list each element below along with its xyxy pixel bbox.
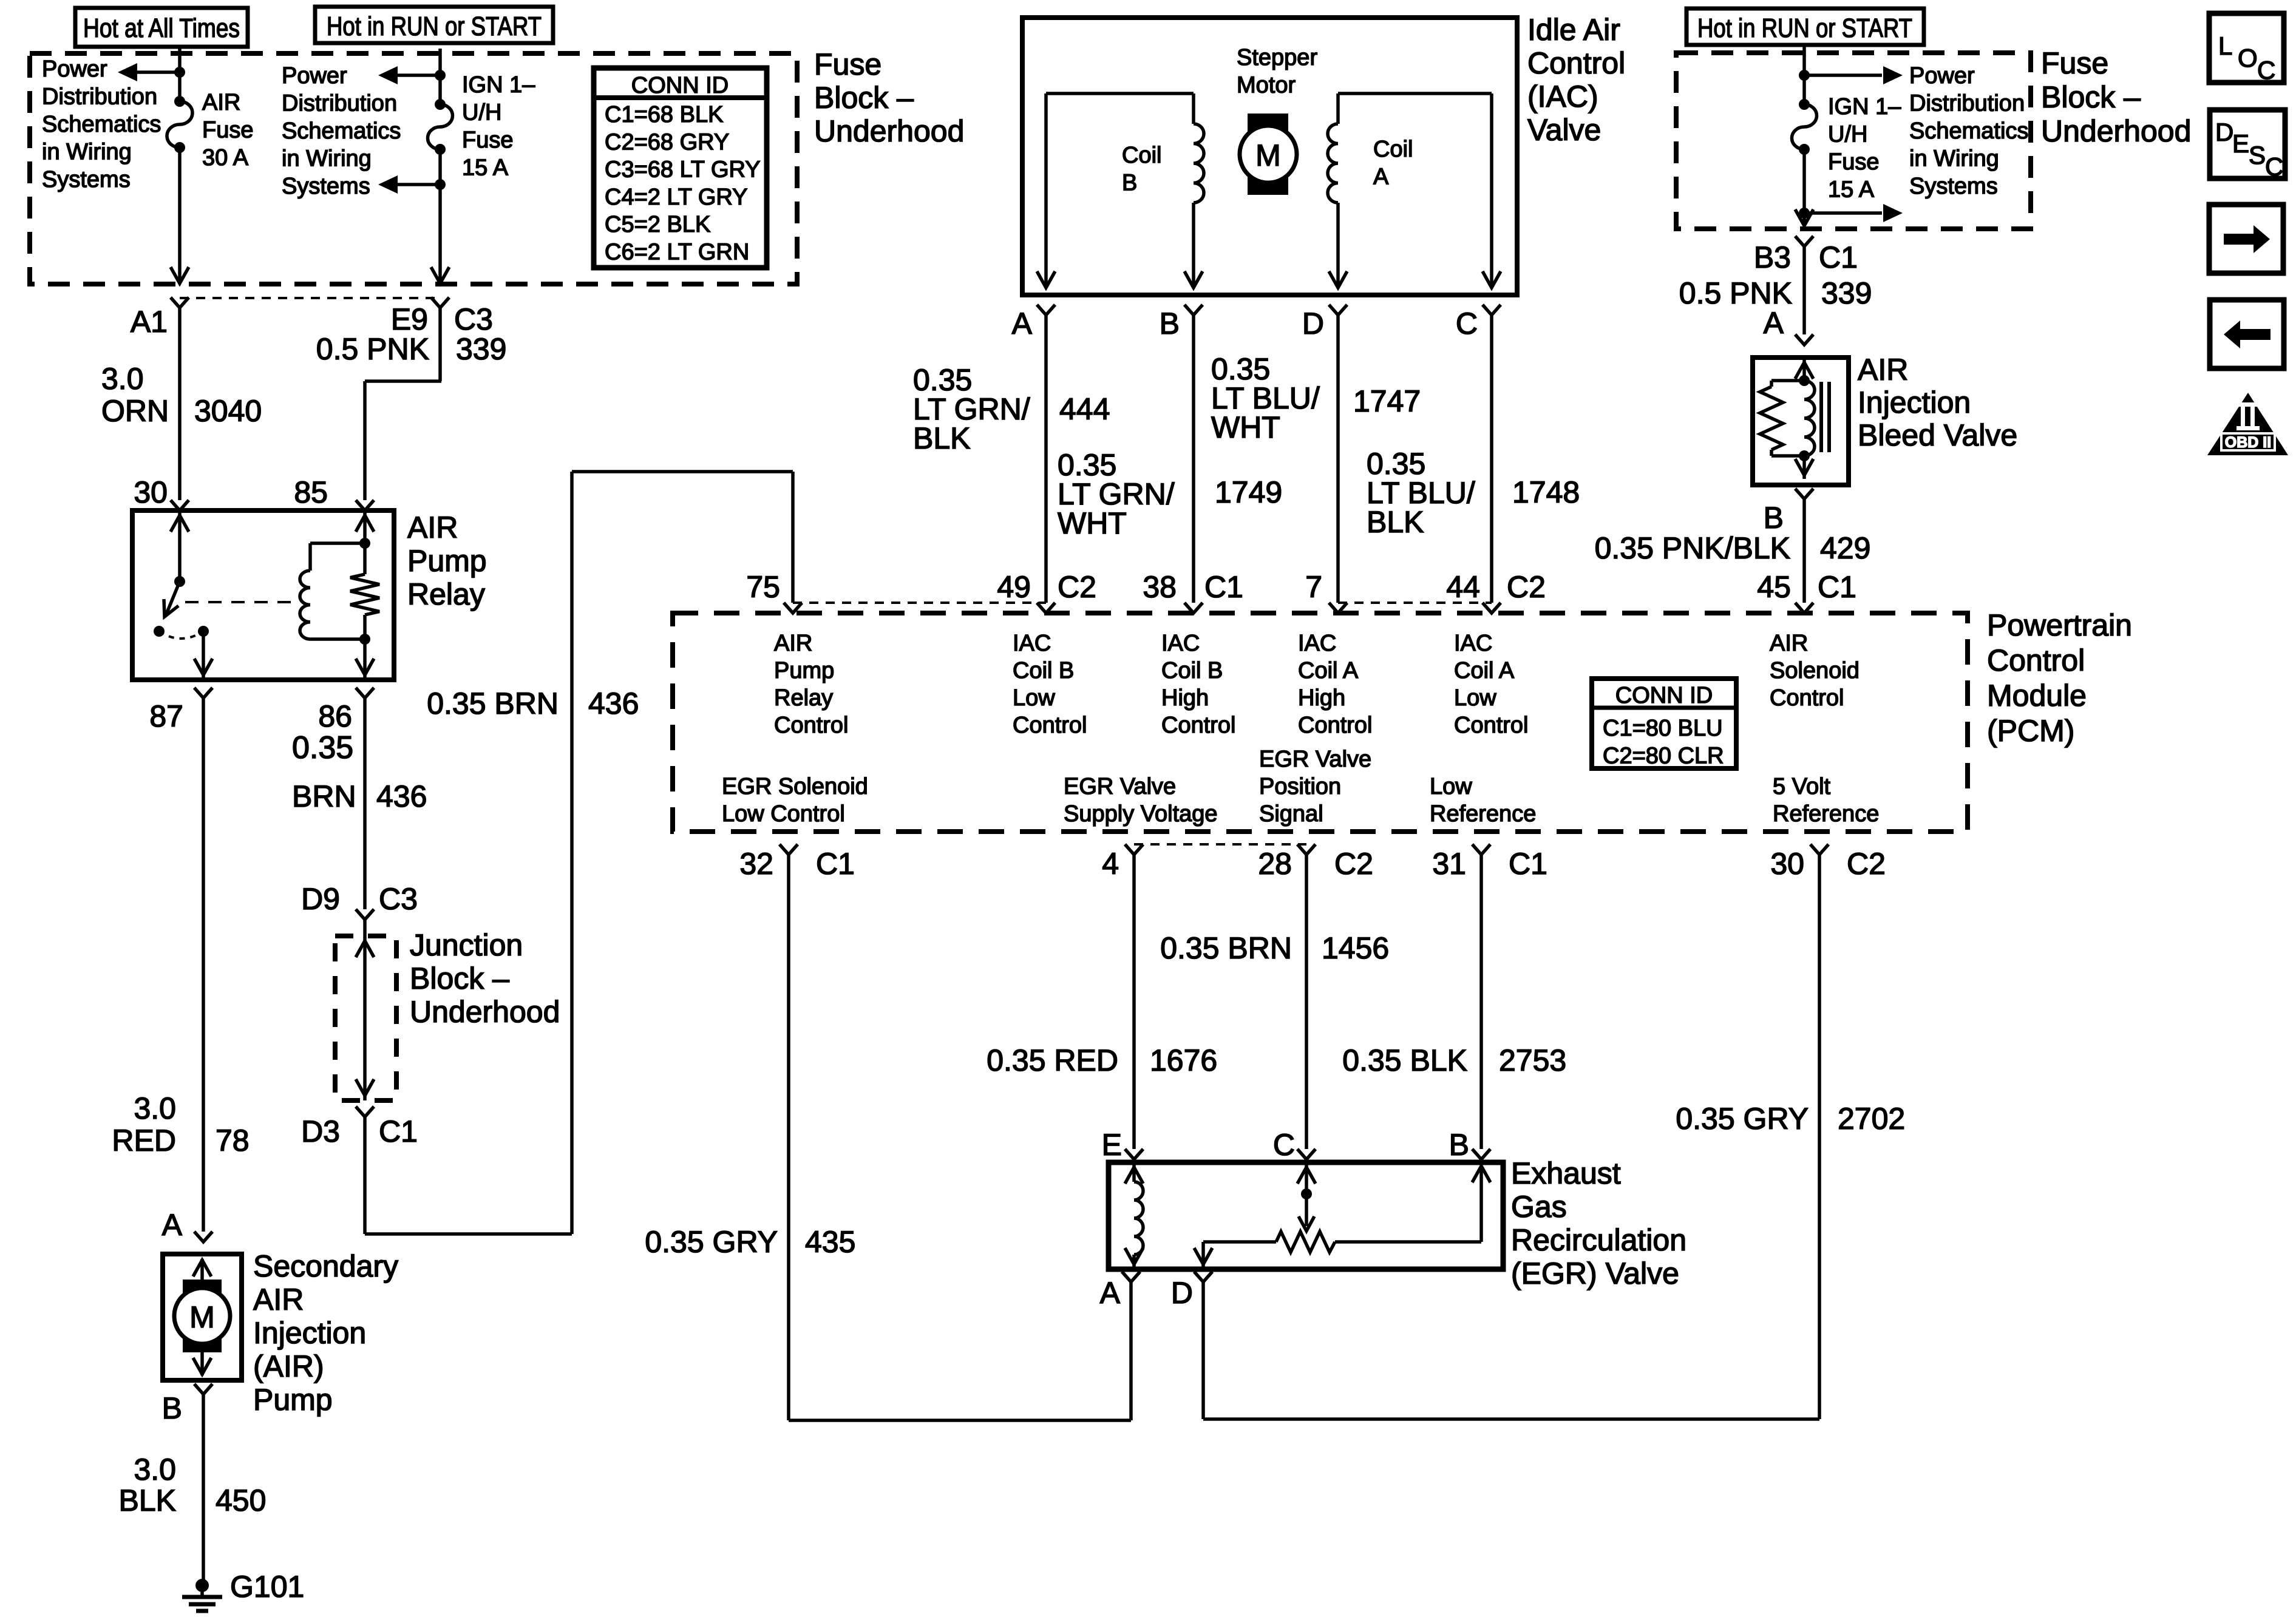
PCM pin label: IAC Coil B Low Control xyxy=(1013,631,1087,738)
svg-text:44: 44 xyxy=(1446,570,1480,604)
label B (bleed valve) xyxy=(1764,501,1784,535)
svg-text:Secondary: Secondary xyxy=(253,1249,398,1283)
label 339 (right) xyxy=(1821,276,1872,310)
fuse block - underhood (dashed box, left) xyxy=(30,53,797,284)
svg-text:Bleed Valve: Bleed Valve xyxy=(1858,418,2017,452)
label 339 (left) xyxy=(456,332,506,366)
IAC coil B bracket xyxy=(1046,92,1194,95)
svg-text:C3: C3 xyxy=(454,302,493,336)
svg-text:0.5 PNK: 0.5 PNK xyxy=(316,332,429,366)
svg-text:RED: RED xyxy=(112,1124,176,1158)
svg-text:Coil B: Coil B xyxy=(1013,658,1074,683)
label D3 xyxy=(301,1114,340,1148)
svg-text:436: 436 xyxy=(376,779,427,813)
IAC wire C internal with down arrow xyxy=(1483,93,1501,288)
svg-text:Schematics: Schematics xyxy=(42,112,161,137)
svg-text:B: B xyxy=(1122,171,1137,196)
wire 1676: 0.35 RED (PCM 4 to EGR E) xyxy=(1132,855,1136,1149)
svg-text:32: 32 xyxy=(739,847,773,881)
EGR pin D drop with arrow xyxy=(1194,1242,1212,1269)
svg-text:85: 85 xyxy=(294,475,328,509)
connector at relay pin 30 xyxy=(171,500,189,510)
svg-text:B: B xyxy=(162,1391,182,1425)
svg-text:38: 38 xyxy=(1143,570,1177,604)
label C2 (pin28) xyxy=(1334,847,1373,881)
wire: battery feed through AIR fuse (vertical, x=296) xyxy=(178,49,182,280)
svg-text:C2: C2 xyxy=(1507,570,1546,604)
label A1 xyxy=(131,305,168,339)
IAC wire A internal with down arrow xyxy=(1037,93,1055,288)
svg-text:C5=2 BLK: C5=2 BLK xyxy=(605,212,710,237)
PCM: Powertrain Control Module (dashed box) xyxy=(673,613,1968,832)
label C2 (pin30) xyxy=(1847,847,1886,881)
svg-text:C1=80 BLU: C1=80 BLU xyxy=(1603,716,1723,741)
label: Fuse Block - Underhood (left) xyxy=(814,47,964,148)
svg-text:E9: E9 xyxy=(391,302,428,336)
svg-text:(IAC): (IAC) xyxy=(1527,80,1598,114)
svg-text:Control: Control xyxy=(774,713,849,738)
svg-text:Valve: Valve xyxy=(1527,113,1601,147)
svg-text:Systems: Systems xyxy=(42,167,131,192)
connector below IAC pin C xyxy=(1483,305,1501,315)
label 1747 xyxy=(1353,384,1421,418)
wire 429: 0.35 PNK/BLK (bleed valve B to PCM 45) xyxy=(1802,499,1806,603)
icon: forward arrow box xyxy=(2209,205,2283,273)
label G101 xyxy=(230,1570,304,1604)
label 429 xyxy=(1820,531,1870,565)
svg-text:Fuse: Fuse xyxy=(462,127,513,153)
label 49 xyxy=(997,570,1031,604)
relay coil drive wire (pin85/86) with arrows xyxy=(356,510,374,680)
relay switch blade xyxy=(164,581,180,617)
junction dot on IGN fuse feed (top) xyxy=(435,70,446,81)
svg-text:C1: C1 xyxy=(1204,570,1243,604)
EGR: Exhaust Gas Recirculation Valve (box) xyxy=(1109,1162,1503,1269)
svg-text:5 Volt: 5 Volt xyxy=(1773,774,1831,799)
label C3 (junction) xyxy=(379,882,418,916)
label 1676 xyxy=(1150,1043,1217,1077)
svg-text:3.0: 3.0 xyxy=(101,362,144,396)
svg-text:Motor: Motor xyxy=(1237,73,1296,98)
svg-text:A: A xyxy=(1100,1276,1121,1310)
svg-text:75: 75 xyxy=(746,570,780,604)
relay coil xyxy=(300,543,365,639)
svg-text:Low Control: Low Control xyxy=(722,801,845,827)
svg-text:Module: Module xyxy=(1987,679,2087,713)
label: Power Distribution Schematics in Wiring Systems (mid) xyxy=(282,63,401,199)
svg-text:Pump: Pump xyxy=(407,544,487,578)
connector at PCM pin 45 xyxy=(1795,603,1813,613)
svg-text:C1=68 BLK: C1=68 BLK xyxy=(605,102,723,127)
wire 436: D3 down and right to riser xyxy=(365,1117,572,1234)
pump internal arrows xyxy=(193,1259,211,1375)
relay pin30 wire with up arrow xyxy=(171,510,189,587)
svg-text:Junction: Junction xyxy=(410,928,523,962)
svg-text:L: L xyxy=(2218,32,2232,60)
label D (EGR) xyxy=(1171,1276,1193,1310)
svg-text:1747: 1747 xyxy=(1353,384,1421,418)
svg-text:Signal: Signal xyxy=(1259,801,1323,827)
svg-text:Control: Control xyxy=(1987,643,2085,677)
fuse block - underhood (dashed box, right) xyxy=(1676,53,2031,229)
label C (IAC) xyxy=(1456,307,1478,341)
svg-text:Injection: Injection xyxy=(1858,385,1971,419)
junction dot (right fuse, bottom) xyxy=(1799,208,1810,219)
svg-text:EGR Solenoid: EGR Solenoid xyxy=(722,774,868,799)
svg-text:Coil A: Coil A xyxy=(1298,658,1359,683)
junction block internal wire with arrows xyxy=(356,920,374,1100)
svg-text:D3: D3 xyxy=(301,1114,340,1148)
connector at EGR pin B xyxy=(1472,1149,1490,1159)
label: Stepper Motor xyxy=(1237,45,1317,98)
svg-text:WHT: WHT xyxy=(1211,410,1280,444)
svg-text:Reference: Reference xyxy=(1773,801,1879,827)
fuse: AIR Fuse 30 A xyxy=(167,96,192,153)
svg-text:D: D xyxy=(2215,118,2233,146)
label: Exhaust Gas Recirculation (EGR) Valve xyxy=(1511,1156,1686,1290)
label 2753 xyxy=(1499,1043,1566,1077)
label: Idle Air Control (IAC) Valve xyxy=(1527,13,1625,147)
connector at EGR pin D xyxy=(1194,1272,1212,1282)
connector at PCM pin 28 xyxy=(1297,844,1316,855)
connector at bleed valve pin A xyxy=(1795,334,1813,345)
connector E9 / C3 xyxy=(431,297,449,308)
svg-text:Recirculation: Recirculation xyxy=(1511,1223,1686,1257)
label 85 xyxy=(294,475,328,509)
svg-text:Fuse: Fuse xyxy=(202,118,253,143)
label 38 xyxy=(1143,570,1177,604)
svg-text:E: E xyxy=(2232,129,2249,158)
IAC coil A xyxy=(1328,93,1347,288)
relay switch travel arc (dashed) xyxy=(159,631,203,639)
svg-text:Pump: Pump xyxy=(774,658,834,683)
svg-text:Injection: Injection xyxy=(253,1316,366,1350)
relay pin87 wire with down arrow xyxy=(194,631,212,680)
label 87 xyxy=(149,699,183,733)
label: AIR Injection Bleed Valve xyxy=(1858,353,2017,452)
PCM pin label: IAC Coil B High Control xyxy=(1161,631,1236,738)
connector at PCM pin 75 xyxy=(784,603,802,613)
svg-text:Hot in RUN or START: Hot in RUN or START xyxy=(1697,13,1912,43)
svg-text:IAC: IAC xyxy=(1298,631,1336,656)
svg-text:CONN ID: CONN ID xyxy=(631,73,729,98)
label: AIR Pump Relay xyxy=(407,510,487,611)
svg-text:C: C xyxy=(1456,307,1478,341)
label 436 (pin86) xyxy=(376,779,427,813)
svg-text:Pump: Pump xyxy=(253,1383,333,1417)
svg-text:AIR: AIR xyxy=(407,510,458,544)
svg-text:Distribution: Distribution xyxy=(282,91,397,117)
label 0.35 BLK xyxy=(1342,1043,1467,1077)
svg-text:1748: 1748 xyxy=(1512,475,1580,509)
arrowhead into connector A1 xyxy=(171,267,189,283)
svg-text:Exhaust: Exhaust xyxy=(1511,1156,1621,1190)
label: IGN 1- U/H Fuse 15 A (right) xyxy=(1828,94,1901,203)
svg-text:in Wiring: in Wiring xyxy=(42,140,132,165)
relay internal resistor xyxy=(350,574,379,615)
arrowhead into connector E9 xyxy=(431,267,449,283)
svg-text:15 A: 15 A xyxy=(462,155,509,181)
label C1 (pin32) xyxy=(816,847,855,881)
svg-text:M: M xyxy=(1255,138,1281,172)
svg-text:A: A xyxy=(162,1208,183,1242)
label C1 (right fuse) xyxy=(1819,240,1858,274)
label A (bleed valve) xyxy=(1764,306,1784,340)
svg-text:Underhood: Underhood xyxy=(2041,114,2191,148)
connector at PCM pin 30 xyxy=(1810,844,1829,855)
svg-text:B: B xyxy=(1764,501,1784,535)
svg-text:WHT: WHT xyxy=(1058,506,1127,540)
svg-text:0.35 RED: 0.35 RED xyxy=(987,1043,1118,1077)
EGR solenoid coil with arrows xyxy=(1125,1162,1143,1269)
svg-text:Underhood: Underhood xyxy=(410,995,560,1029)
svg-text:C2=80 CLR: C2=80 CLR xyxy=(1603,743,1724,768)
label: Coil A xyxy=(1373,137,1413,190)
svg-text:15 A: 15 A xyxy=(1828,177,1875,203)
CONN ID table (PCM) xyxy=(1592,679,1736,768)
power feed banner: Hot in RUN or START (left) xyxy=(315,7,553,43)
svg-text:Block –: Block – xyxy=(814,81,914,115)
connector below relay pin 86 xyxy=(356,688,374,698)
svg-text:(AIR): (AIR) xyxy=(253,1349,324,1383)
svg-text:7: 7 xyxy=(1305,570,1322,604)
connector line (thin dashed) 7-44 xyxy=(1338,602,1492,604)
svg-text:1749: 1749 xyxy=(1215,475,1282,509)
svg-text:C: C xyxy=(2257,56,2275,84)
label C2 (pin44) xyxy=(1507,570,1546,604)
svg-text:Stepper: Stepper xyxy=(1237,45,1317,70)
svg-text:B3: B3 xyxy=(1754,240,1791,274)
connector at PCM pin 49 xyxy=(1037,603,1055,613)
connector at bleed valve pin B xyxy=(1795,489,1813,499)
svg-text:Low: Low xyxy=(1013,685,1055,711)
svg-text:0.35 BRN: 0.35 BRN xyxy=(427,686,559,720)
label A (IAC) xyxy=(1012,307,1033,341)
ground G101 xyxy=(182,1579,222,1611)
svg-text:Coil: Coil xyxy=(1122,143,1161,168)
label: Power Distribution Schematics in Wiring Systems (right) xyxy=(1909,63,2028,199)
svg-text:Reference: Reference xyxy=(1430,801,1536,827)
connector D3 / C1 xyxy=(356,1107,374,1117)
wire 339: 0.5 PNK (B3 to bleed valve A) xyxy=(1802,246,1806,334)
svg-text:Schematics: Schematics xyxy=(1909,118,2028,144)
svg-text:B: B xyxy=(1160,307,1180,341)
svg-text:Hot at All Times: Hot at All Times xyxy=(83,13,240,43)
connector at EGR pin A xyxy=(1122,1272,1140,1282)
svg-text:C2: C2 xyxy=(1058,570,1096,604)
svg-text:31: 31 xyxy=(1432,847,1466,881)
label A (pump) xyxy=(162,1208,183,1242)
fuse: IGN 1- U/H Fuse 15 A xyxy=(428,99,453,155)
connector B3 / C1 xyxy=(1795,236,1813,246)
svg-text:4: 4 xyxy=(1102,847,1119,881)
svg-text:D: D xyxy=(1302,307,1324,341)
label 3.0 BLK xyxy=(118,1453,176,1517)
svg-text:Hot in RUN or START: Hot in RUN or START xyxy=(327,12,542,41)
svg-text:Coil B: Coil B xyxy=(1161,658,1223,683)
PCM pin label: EGR Valve Position Signal xyxy=(1259,747,1371,827)
svg-text:High: High xyxy=(1298,685,1345,711)
connector line (thin dashed) 75-49 xyxy=(793,602,1046,604)
svg-text:C1: C1 xyxy=(816,847,855,881)
label 30 (pin30) xyxy=(1770,847,1804,881)
EGR potentiometer xyxy=(1203,1232,1481,1252)
wire 444: 0.35 LT GRN/BLK (IAC A to PCM 49) xyxy=(1044,315,1048,603)
svg-text:429: 429 xyxy=(1820,531,1870,565)
label 31 xyxy=(1432,847,1466,881)
label: Powertrain Control Module (PCM) xyxy=(1987,608,2132,748)
bleed valve wire with arrows xyxy=(1795,358,1813,479)
label 450 xyxy=(216,1483,266,1517)
PCM pin label: 5 Volt Reference xyxy=(1773,774,1879,827)
svg-text:Systems: Systems xyxy=(282,174,370,199)
wire 1749: 0.35 LT GRN/WHT (IAC B to PCM 38) xyxy=(1192,315,1195,603)
svg-text:OBD II: OBD II xyxy=(2225,434,2271,451)
svg-text:450: 450 xyxy=(216,1483,266,1517)
svg-text:IAC: IAC xyxy=(1013,631,1051,656)
label E9 xyxy=(391,302,428,336)
svg-text:in Wiring: in Wiring xyxy=(282,146,372,172)
PCM pin label: IAC Coil A Low Control xyxy=(1454,631,1529,738)
svg-text:IGN 1–: IGN 1– xyxy=(462,72,535,98)
wire 436: relay 86 down to junction block D9 xyxy=(363,698,367,909)
svg-text:C1: C1 xyxy=(1509,847,1547,881)
svg-text:C1: C1 xyxy=(379,1114,418,1148)
svg-text:49: 49 xyxy=(997,570,1031,604)
svg-text:(EGR) Valve: (EGR) Valve xyxy=(1511,1256,1679,1290)
label 32 xyxy=(739,847,773,881)
svg-text:S: S xyxy=(2249,141,2266,169)
label 0.35 BRN (riser) xyxy=(427,686,559,720)
svg-text:3.0: 3.0 xyxy=(134,1453,176,1486)
svg-text:BRN: BRN xyxy=(292,779,356,813)
arrow to Power Distribution (right, top) xyxy=(1804,66,1903,84)
label 0.35 BRN (1456) xyxy=(1160,931,1292,965)
svg-text:Fuse: Fuse xyxy=(1828,149,1879,175)
svg-text:IAC: IAC xyxy=(1454,631,1492,656)
svg-text:CONN ID: CONN ID xyxy=(1615,683,1713,708)
wire 436: top run to PCM pin 75 xyxy=(572,472,793,603)
connector at EGR pin C xyxy=(1297,1149,1316,1159)
label 0.35 LT BLU/WHT xyxy=(1211,352,1320,444)
label C (EGR) xyxy=(1273,1128,1295,1162)
svg-text:in Wiring: in Wiring xyxy=(1909,146,1999,172)
label: AIR Fuse 30 A xyxy=(202,90,253,171)
label: Junction Block - Underhood xyxy=(410,928,560,1029)
label 28 xyxy=(1258,847,1292,881)
svg-text:0.5 PNK: 0.5 PNK xyxy=(1679,276,1792,310)
svg-text:C2: C2 xyxy=(1334,847,1373,881)
svg-text:Block –: Block – xyxy=(410,961,509,995)
PCM pin label: EGR Valve Supply Voltage xyxy=(1064,774,1218,827)
label: IGN 1- U/H Fuse 15 A xyxy=(462,72,535,181)
svg-text:0.35 GRY: 0.35 GRY xyxy=(645,1225,778,1259)
icon: back arrow box xyxy=(2210,300,2284,368)
EGR position sensor wiper xyxy=(1297,1162,1316,1231)
svg-text:Relay: Relay xyxy=(774,685,833,711)
svg-text:Gas: Gas xyxy=(1511,1190,1567,1224)
wire 1748: 0.35 LT BLU/BLK (IAC C to PCM 44) xyxy=(1490,315,1493,603)
svg-text:M: M xyxy=(189,1300,215,1334)
svg-text:BLK: BLK xyxy=(118,1483,176,1517)
svg-text:78: 78 xyxy=(216,1124,250,1158)
label 4 xyxy=(1102,847,1119,881)
svg-text:444: 444 xyxy=(1059,392,1110,426)
connector line (thin dashed) A1-E9 xyxy=(180,297,440,299)
label 0.35 GRY (435) xyxy=(645,1225,778,1259)
label 0.35 GRY (2702) xyxy=(1676,1102,1809,1136)
motor M: Secondary AIR Injection Pump (box) xyxy=(163,1254,242,1380)
label 436 (riser) xyxy=(588,686,639,720)
svg-text:Schematics: Schematics xyxy=(282,118,401,144)
svg-text:Fuse: Fuse xyxy=(2041,46,2108,80)
arrow to Power Distribution (right, bottom) xyxy=(1804,204,1903,222)
label E (EGR) xyxy=(1102,1128,1122,1162)
connector at pump pin A xyxy=(194,1232,212,1242)
icon: OBD II symbol xyxy=(2207,393,2288,455)
label 1749 xyxy=(1215,475,1282,509)
svg-text:Low: Low xyxy=(1430,774,1472,799)
svg-text:Idle Air: Idle Air xyxy=(1527,13,1620,47)
IAC: Idle Air Control Valve (box) xyxy=(1022,18,1517,295)
svg-text:87: 87 xyxy=(149,699,183,733)
svg-text:3040: 3040 xyxy=(194,394,262,428)
label C1 (junction) xyxy=(379,1114,418,1148)
svg-text:EGR Valve: EGR Valve xyxy=(1259,747,1371,772)
relay dashed actuation line xyxy=(185,601,299,603)
connector at pump pin B xyxy=(194,1384,212,1394)
svg-text:339: 339 xyxy=(456,332,506,366)
wire 3040: 3.0 ORN (A1 to relay 30) xyxy=(178,308,182,500)
svg-text:Position: Position xyxy=(1259,774,1341,799)
svg-text:30: 30 xyxy=(1770,847,1804,881)
label 0.35 RED xyxy=(987,1043,1118,1077)
svg-text:435: 435 xyxy=(805,1225,855,1259)
PCM pin label: Low Reference xyxy=(1430,774,1536,827)
label 444 xyxy=(1059,392,1110,426)
svg-text:Coil A: Coil A xyxy=(1454,658,1515,683)
svg-text:B: B xyxy=(1449,1128,1469,1162)
svg-text:Underhood: Underhood xyxy=(814,114,964,148)
connector at PCM pin 44 xyxy=(1483,603,1501,613)
label 1748 xyxy=(1512,475,1580,509)
svg-text:Distribution: Distribution xyxy=(42,84,157,110)
svg-text:AIR: AIR xyxy=(253,1283,304,1317)
connector below IAC pin A xyxy=(1037,305,1055,315)
svg-text:Fuse: Fuse xyxy=(814,47,881,81)
wire 78: 3.0 RED (relay 87 to AIR pump) xyxy=(202,698,205,1232)
arrowhead into connector B3 xyxy=(1795,209,1813,226)
pump motor symbol xyxy=(174,1280,230,1352)
connector line (thin dashed) 4-28 xyxy=(1134,843,1306,846)
svg-text:45: 45 xyxy=(1757,570,1791,604)
label 0.35 LT BLU/BLK xyxy=(1367,447,1475,539)
svg-text:0.35 BLK: 0.35 BLK xyxy=(1342,1043,1467,1077)
svg-text:EGR Valve: EGR Valve xyxy=(1064,774,1176,799)
svg-text:Control: Control xyxy=(1298,713,1373,738)
label C1 (pin31) xyxy=(1509,847,1547,881)
svg-text:ORN: ORN xyxy=(101,394,169,428)
svg-text:436: 436 xyxy=(588,686,639,720)
label 7 xyxy=(1305,570,1322,604)
connector at PCM pin 7 xyxy=(1329,603,1347,613)
svg-text:(PCM): (PCM) xyxy=(1987,714,2074,748)
connector at PCM pin 32 xyxy=(779,844,798,855)
icon: DESC box xyxy=(2210,110,2285,181)
arrow to Power Distribution Schematics (mid, top) xyxy=(378,66,440,84)
svg-text:E: E xyxy=(1102,1128,1122,1162)
svg-text:2753: 2753 xyxy=(1499,1043,1566,1077)
